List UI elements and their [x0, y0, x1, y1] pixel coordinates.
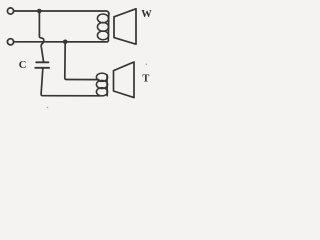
- wire node B down and right to lower coil: [65, 42, 99, 80]
- scan speck: [47, 107, 49, 109]
- speaker W horn: [114, 9, 136, 44]
- wire capacitor down and right along bottom: [41, 69, 100, 96]
- wire lower horizontal to coil bottom: [14, 41, 109, 42]
- wire node A down with hop over lower wire: [39, 11, 43, 61]
- scan speck: [146, 64, 148, 66]
- svg-text:T: T: [142, 74, 149, 85]
- wire top horizontal: [14, 11, 109, 14]
- background: [0, 0, 157, 111]
- node B junction dot: [63, 40, 68, 45]
- capacitor C bottom plate: [35, 67, 49, 69]
- svg-text:W: W: [141, 9, 152, 20]
- speaker T horn: [114, 62, 135, 98]
- svg-text:C: C: [19, 60, 27, 71]
- terminal (bottom input): [7, 39, 13, 45]
- node A junction dot: [37, 9, 42, 14]
- capacitor C top plate: [36, 61, 48, 63]
- terminal (top input): [7, 8, 13, 14]
- inductor L2 loops: [96, 73, 107, 81]
- inductor L1 loops: [97, 14, 108, 23]
- inductor L1 vertical line: [107, 13, 110, 41]
- inductor L2 vertical line: [106, 75, 108, 96]
